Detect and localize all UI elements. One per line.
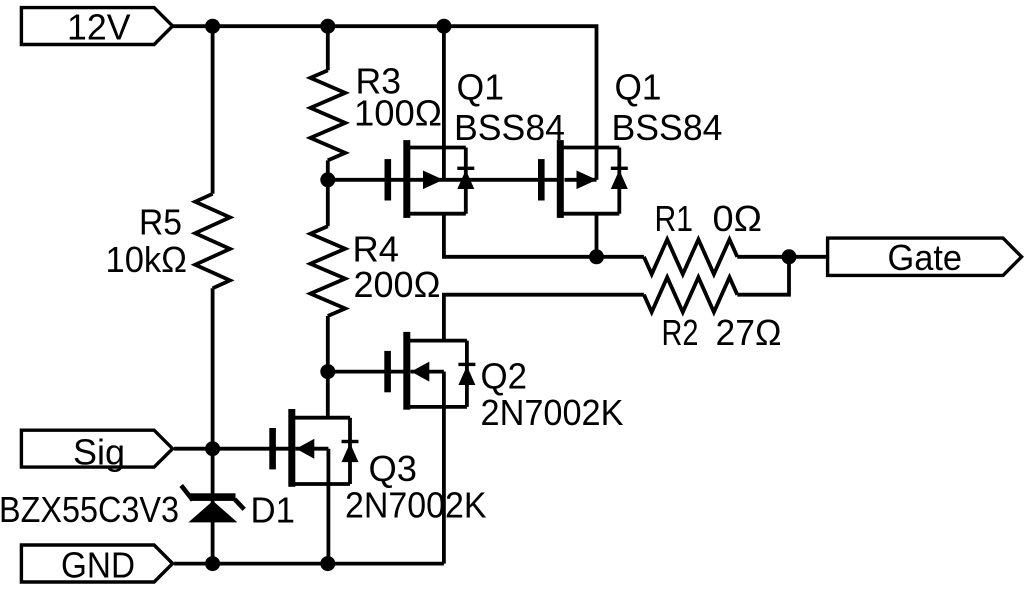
svg-text:Q2: Q2 xyxy=(481,356,528,397)
wire Q1b drain xyxy=(595,214,599,257)
wire Gate node to R2 xyxy=(737,257,789,295)
transistor Q2 channel bar xyxy=(403,332,410,410)
transistor Q2 drain lead xyxy=(406,339,467,343)
wire Q1b bulk lead xyxy=(565,178,597,182)
transistor Q1b source lead xyxy=(560,146,620,150)
svg-text:200Ω: 200Ω xyxy=(354,264,441,305)
transistor Q1b gate bar xyxy=(538,159,545,200)
transistor Q3 drain lead xyxy=(291,416,350,420)
wire 12V to R5 xyxy=(211,26,215,194)
resistor R3 xyxy=(310,70,345,160)
svg-text:10kΩ: 10kΩ xyxy=(106,239,188,280)
transistor Q3 gate bar xyxy=(269,428,276,469)
wire Q1a drain to R1 xyxy=(444,214,644,257)
svg-text:R1: R1 xyxy=(655,198,694,239)
transistor Q1b drain lead xyxy=(560,212,620,216)
transistor Q1a channel bar xyxy=(403,140,410,218)
svg-text:D1: D1 xyxy=(251,490,296,531)
diode D1 zener BZX55C3V3 xyxy=(181,485,244,522)
transistor Q3 channel bar xyxy=(288,409,295,487)
wire Q2 gate wire xyxy=(328,370,404,374)
resistor R2 xyxy=(644,277,737,312)
svg-text:2N7002K: 2N7002K xyxy=(345,485,487,526)
wire Q3 bulk lead xyxy=(295,447,328,451)
resistor R1 xyxy=(644,239,737,274)
svg-text:27Ω: 27Ω xyxy=(716,312,782,353)
transistor Q2 body diode xyxy=(458,341,475,407)
svg-text:12V: 12V xyxy=(67,7,131,48)
svg-text:BSS84: BSS84 xyxy=(612,107,723,148)
svg-text:R5: R5 xyxy=(139,202,182,243)
transistor Q3 source lead xyxy=(291,482,350,486)
wire 12V to R3 xyxy=(326,26,330,70)
svg-text:Q3: Q3 xyxy=(369,448,418,489)
wire Q2 source to GND xyxy=(442,372,446,564)
wire Q2 bulk lead xyxy=(411,370,444,374)
wire Q1a source riser xyxy=(442,26,446,180)
svg-text:100Ω: 100Ω xyxy=(354,93,442,134)
svg-text:GND: GND xyxy=(61,545,135,586)
wire R5 to Sig node xyxy=(211,288,215,448)
wire gate node to Q1a/Q1b gates xyxy=(328,178,558,182)
net flag Sig xyxy=(21,430,172,467)
wire GND rail xyxy=(174,562,444,566)
resistor R5 xyxy=(195,194,230,288)
wire Q3 source to GND xyxy=(326,449,330,564)
junction Sig/R5/D1 xyxy=(205,441,220,456)
transistor Q1a body diode xyxy=(457,148,474,214)
wire R1 to Gate flag xyxy=(737,255,829,259)
wire R3 to gate node to R4 xyxy=(326,160,330,226)
wire R4 to Q2-gate node to Q3 drain xyxy=(326,316,330,417)
transistor Q2 bulk arrow xyxy=(411,362,429,382)
transistor Q1a drain lead xyxy=(406,212,466,216)
transistor Q1a gate bar xyxy=(385,159,392,200)
transistor Q1a bulk arrow xyxy=(423,171,443,190)
junction R3/R4/gates node xyxy=(320,172,335,187)
junction Q1b drain/R1 xyxy=(589,249,604,264)
wire Sig to Q3 gate xyxy=(174,447,289,451)
svg-text:Sig: Sig xyxy=(73,431,125,472)
transistor Q3 bulk arrow xyxy=(296,439,314,459)
junction GND/D1 xyxy=(205,556,220,571)
transistor Q2 gate bar xyxy=(384,351,391,392)
svg-text:Q1: Q1 xyxy=(615,67,662,108)
transistor Q1b bulk arrow xyxy=(577,171,597,190)
net flag Gate xyxy=(828,238,1022,275)
resistor R4 xyxy=(310,226,345,316)
junction GND/Q3 source xyxy=(320,556,335,571)
junction 12V/R3 xyxy=(320,19,335,34)
svg-text:2N7002K: 2N7002K xyxy=(481,392,624,433)
svg-text:0Ω: 0Ω xyxy=(713,198,763,239)
svg-text:Q1: Q1 xyxy=(457,67,505,108)
net flag GND xyxy=(21,545,172,582)
wire R2 to Q2 drain xyxy=(444,295,644,341)
transistor Q1b body diode xyxy=(611,148,628,214)
transistor Q2 source lead xyxy=(406,405,467,409)
svg-text:Gate: Gate xyxy=(888,237,963,278)
net flag 12V xyxy=(21,8,172,45)
transistor Q1b channel bar xyxy=(557,140,564,218)
wire Sig node through D1 to GND xyxy=(211,449,215,564)
transistor Q3 body diode xyxy=(342,418,359,484)
svg-text:BSS84: BSS84 xyxy=(454,107,565,148)
wire 12V rail and Q1b source drop xyxy=(173,26,597,180)
junction R4/Q2 gate/Q3 drain xyxy=(320,364,335,379)
transistor Q1a source lead xyxy=(406,146,466,150)
junction 12V/Q1a source xyxy=(436,19,451,34)
junction 12V/R5 xyxy=(205,19,220,34)
svg-text:R2: R2 xyxy=(662,312,699,353)
junction R1/R2/Gate node xyxy=(782,249,797,264)
svg-text:BZX55C3V3: BZX55C3V3 xyxy=(0,489,179,530)
